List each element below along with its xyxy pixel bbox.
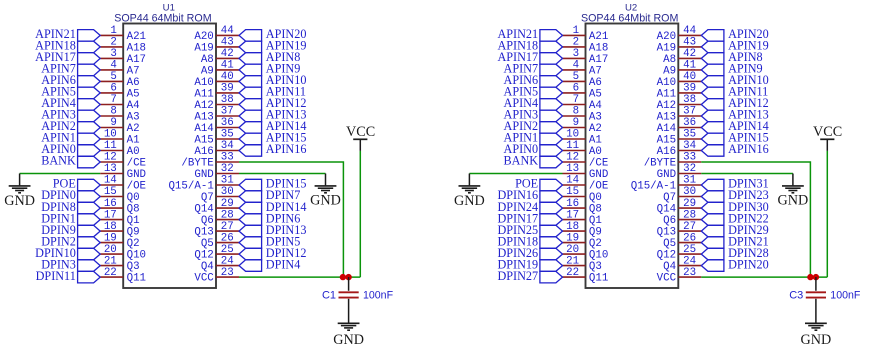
svg-text:Q10: Q10 — [589, 250, 608, 262]
svg-text:A21: A21 — [127, 31, 146, 43]
svg-text:BANK: BANK — [504, 154, 539, 168]
label C3 reference — [789, 290, 803, 302]
U1 pin 33 (/BYTE) to wire — [181, 152, 239, 170]
svg-text:VCC: VCC — [346, 124, 375, 140]
svg-text:4: 4 — [573, 60, 579, 72]
U2 pin 40 (A10) net label APIN10 — [657, 71, 769, 89]
svg-text:GND: GND — [4, 193, 35, 209]
svg-text:A19: A19 — [194, 42, 213, 54]
svg-text:C3: C3 — [789, 290, 803, 302]
svg-text:23: 23 — [221, 267, 234, 279]
power symbol VCC (U1) — [346, 124, 375, 151]
U1 pin 29 (Q14) net label DPIN14 — [194, 198, 306, 216]
U1 pin 16 (Q8) net label DPIN8 — [41, 198, 139, 216]
svg-text:29: 29 — [221, 198, 234, 210]
svg-text:Q9: Q9 — [589, 227, 602, 239]
U2 pin 12 (/CE) net label BANK — [504, 152, 609, 170]
label C3 value 100nF — [830, 290, 861, 302]
U2 pin 19 (Q2) net label DPIN18 — [497, 232, 601, 250]
U2 pin 41 (A9) net label APIN9 — [663, 60, 763, 78]
svg-text:A10: A10 — [657, 77, 676, 89]
label C1 reference — [322, 290, 336, 302]
svg-text:25: 25 — [221, 244, 234, 256]
svg-text:3: 3 — [573, 48, 579, 60]
U1 pin 34 (A16) net label APIN16 — [194, 140, 306, 158]
svg-text:8: 8 — [110, 106, 116, 118]
svg-text:28: 28 — [683, 209, 696, 221]
U2 pin 13 (GND) to wire — [563, 163, 609, 181]
U2 pin 32 (GND) to wire — [657, 163, 702, 181]
svg-text:33: 33 — [221, 152, 234, 164]
power symbol VCC (U2) — [813, 124, 842, 151]
svg-text:A17: A17 — [127, 54, 146, 66]
U2 pin 38 (A12) net label APIN12 — [657, 94, 769, 112]
svg-text:Q2: Q2 — [589, 238, 602, 250]
U1 pin 21 (Q3) net label DPIN3 — [41, 255, 139, 273]
U2 pin 1 (A21) net label APIN21 — [497, 25, 608, 43]
svg-text:19: 19 — [104, 232, 117, 244]
svg-text:7: 7 — [573, 94, 579, 106]
svg-text:37: 37 — [683, 106, 696, 118]
svg-text:A1: A1 — [589, 134, 602, 146]
svg-text:15: 15 — [104, 186, 117, 198]
svg-text:100nF: 100nF — [830, 290, 861, 302]
svg-text:37: 37 — [221, 106, 234, 118]
svg-text:17: 17 — [104, 209, 117, 221]
U1 pin 2 (A18) net label APIN18 — [35, 37, 146, 55]
svg-text:16: 16 — [566, 198, 579, 210]
svg-text:A2: A2 — [589, 123, 602, 135]
U2 pin 18 (Q9) net label DPIN25 — [497, 221, 601, 239]
svg-text:3: 3 — [110, 48, 116, 60]
svg-text:100nF: 100nF — [363, 290, 394, 302]
svg-text:2: 2 — [110, 37, 116, 49]
svg-text:/BYTE: /BYTE — [181, 157, 213, 169]
svg-text:A18: A18 — [127, 42, 146, 54]
U2 pin 3 (A17) net label APIN17 — [497, 48, 608, 66]
U2 pin 10 (A1) net label APIN1 — [504, 129, 602, 147]
svg-text:A20: A20 — [194, 31, 213, 43]
svg-text:41: 41 — [683, 60, 696, 72]
svg-text:C1: C1 — [322, 290, 336, 302]
svg-text:GND: GND — [801, 332, 832, 348]
svg-text:24: 24 — [683, 255, 696, 267]
U2 pin 43 (A19) net label APIN19 — [657, 37, 769, 55]
U2 pin 34 (A16) net label APIN16 — [657, 140, 769, 158]
svg-text:12: 12 — [566, 152, 579, 164]
svg-text:Q12: Q12 — [657, 250, 676, 262]
U1 pin 35 (A15) net label APIN15 — [194, 129, 306, 147]
svg-text:Q2: Q2 — [127, 238, 140, 250]
U1 pin 3 (A17) net label APIN17 — [35, 48, 146, 66]
U2 pin 21 (Q3) net label DPIN19 — [497, 255, 601, 273]
svg-text:/CE: /CE — [127, 157, 146, 169]
svg-text:Q6: Q6 — [201, 215, 214, 227]
svg-text:Q5: Q5 — [201, 238, 214, 250]
U1 pin 19 (Q2) net label DPIN2 — [41, 232, 139, 250]
U2 pin 30 (Q7) net label DPIN23 — [663, 186, 769, 204]
svg-text:11: 11 — [104, 140, 117, 152]
svg-text:Q14: Q14 — [657, 204, 676, 216]
svg-text:40: 40 — [683, 71, 696, 83]
svg-text:Q11: Q11 — [589, 273, 608, 285]
svg-text:SOP44 64Mbit ROM: SOP44 64Mbit ROM — [114, 12, 212, 24]
U1 pin 18 (Q9) net label DPIN9 — [41, 221, 139, 239]
U1 pin 4 (A7) net label APIN7 — [41, 60, 139, 78]
svg-text:A0: A0 — [589, 146, 602, 158]
ground symbol GND (below C1) — [333, 323, 364, 348]
U2 pin 9 (A2) net label APIN2 — [504, 117, 602, 135]
U1 pin 11 (A0) net label APIN0 — [41, 140, 139, 158]
svg-text:32: 32 — [683, 163, 696, 175]
svg-text:15: 15 — [566, 186, 579, 198]
U1 pin 1 (A21) net label APIN21 — [35, 25, 146, 43]
svg-text:BANK: BANK — [41, 154, 76, 168]
svg-text:10: 10 — [104, 129, 117, 141]
svg-text:40: 40 — [221, 71, 234, 83]
svg-text:GND: GND — [310, 193, 341, 209]
svg-text:DPIN11: DPIN11 — [36, 269, 76, 283]
svg-text:38: 38 — [683, 94, 696, 106]
svg-text:A10: A10 — [194, 77, 213, 89]
U2 pin 22 (Q11) net label DPIN27 — [497, 267, 608, 285]
svg-text:A11: A11 — [657, 88, 676, 100]
svg-text:Q1: Q1 — [589, 215, 602, 227]
U1 pin 23 (VCC) to wire — [194, 267, 239, 285]
svg-text:A8: A8 — [201, 54, 214, 66]
svg-text:13: 13 — [566, 163, 579, 175]
svg-text:18: 18 — [566, 221, 579, 233]
ground symbol GND (below C3) — [801, 323, 832, 348]
label C1 value 100nF — [363, 290, 394, 302]
svg-text:A20: A20 — [657, 31, 676, 43]
svg-text:Q14: Q14 — [194, 204, 213, 216]
svg-text:A6: A6 — [127, 77, 140, 89]
U1 pin 14 (/OE) net label POE — [53, 175, 146, 193]
capacitor C3 100nF — [806, 277, 826, 323]
svg-text:6: 6 — [110, 83, 116, 95]
U1 pin 32 (GND) to wire — [194, 163, 239, 181]
U1 pin 39 (A11) net label APIN11 — [194, 83, 306, 101]
svg-text:Q0: Q0 — [127, 192, 140, 204]
U2 pin 29 (Q14) net label DPIN30 — [657, 198, 769, 216]
svg-text:APIN16: APIN16 — [728, 142, 769, 156]
svg-text:Q12: Q12 — [194, 250, 213, 262]
svg-text:GND: GND — [194, 169, 213, 181]
U1 pin 17 (Q1) net label DPIN1 — [41, 209, 139, 227]
wire U1 pin13 GND to left ground symbol — [20, 174, 101, 186]
U1 pin 44 (A20) net label APIN20 — [194, 25, 306, 43]
svg-text:11: 11 — [566, 140, 579, 152]
svg-text:30: 30 — [221, 186, 234, 198]
svg-text:A18: A18 — [589, 42, 608, 54]
U1 pin 13 (GND) to wire — [100, 163, 146, 181]
svg-text:A16: A16 — [657, 146, 676, 158]
svg-text:31: 31 — [683, 175, 696, 187]
svg-text:12: 12 — [104, 152, 117, 164]
svg-text:Q13: Q13 — [194, 227, 213, 239]
svg-text:A5: A5 — [127, 88, 140, 100]
svg-text:22: 22 — [104, 267, 117, 279]
svg-text:Q15/A-1: Q15/A-1 — [168, 180, 213, 192]
U2 pin 31 (Q15/A-1) net label DPIN31 — [631, 175, 769, 193]
svg-text:VCC: VCC — [813, 124, 842, 140]
svg-text:DPIN27: DPIN27 — [497, 269, 538, 283]
svg-text:A12: A12 — [657, 100, 676, 112]
svg-text:Q9: Q9 — [127, 227, 140, 239]
U2 pin 11 (A0) net label APIN0 — [504, 140, 602, 158]
U1 pin 42 (A8) net label APIN8 — [201, 48, 301, 66]
U2 pin 35 (A15) net label APIN15 — [657, 129, 769, 147]
U2 pin 2 (A18) net label APIN18 — [497, 37, 608, 55]
U2 pin 42 (A8) net label APIN8 — [663, 48, 763, 66]
U2 pin 33 (/BYTE) to wire — [644, 152, 702, 170]
svg-text:A4: A4 — [127, 100, 140, 112]
svg-text:SOP44 64Mbit ROM: SOP44 64Mbit ROM — [581, 12, 679, 24]
svg-text:A1: A1 — [127, 134, 140, 146]
U2 pin 26 (Q5) net label DPIN21 — [663, 232, 769, 250]
svg-text:A13: A13 — [194, 111, 213, 123]
wire U2 pin32 GND to ground symbol — [701, 174, 793, 186]
U2 pin 4 (A7) net label APIN7 — [504, 60, 602, 78]
U2 pin 23 (VCC) to wire — [657, 267, 702, 285]
svg-text:31: 31 — [221, 175, 234, 187]
svg-text:A2: A2 — [127, 123, 140, 135]
U1 pin 12 (/CE) net label BANK — [41, 152, 146, 170]
wire U2 pin23 VCC to VCC rail — [701, 276, 827, 278]
svg-text:13: 13 — [104, 163, 117, 175]
svg-text:A6: A6 — [589, 77, 602, 89]
svg-text:16: 16 — [104, 198, 117, 210]
svg-text:35: 35 — [683, 129, 696, 141]
U1 pin 27 (Q13) net label DPIN13 — [194, 221, 306, 239]
svg-text:34: 34 — [221, 140, 234, 152]
svg-text:41: 41 — [221, 60, 234, 72]
U2 pin 14 (/OE) net label POE — [515, 175, 608, 193]
U1 pin 7 (A4) net label APIN4 — [41, 94, 139, 112]
ground symbol GND (right of U2) — [778, 186, 809, 209]
svg-text:1: 1 — [110, 25, 116, 37]
svg-text:Q8: Q8 — [127, 204, 140, 216]
svg-text:38: 38 — [221, 94, 234, 106]
wire U1 pin33 /BYTE to VCC rail — [239, 162, 343, 277]
svg-text:23: 23 — [683, 267, 696, 279]
svg-text:9: 9 — [110, 117, 116, 129]
svg-text:6: 6 — [573, 83, 579, 95]
svg-text:A0: A0 — [127, 146, 140, 158]
svg-text:GND: GND — [333, 332, 364, 348]
U1 pin 26 (Q5) net label DPIN5 — [201, 232, 301, 250]
svg-text:35: 35 — [221, 129, 234, 141]
wire VCC rail vertical (U1) — [359, 151, 361, 277]
svg-text:VCC: VCC — [657, 273, 677, 285]
U2 pin 27 (Q13) net label DPIN29 — [657, 221, 769, 239]
svg-text:Q10: Q10 — [127, 250, 146, 262]
svg-text:10: 10 — [566, 129, 579, 141]
svg-text:30: 30 — [683, 186, 696, 198]
junction dot C1-VCC (U1) — [345, 274, 351, 280]
svg-text:4: 4 — [110, 60, 116, 72]
svg-text:28: 28 — [221, 209, 234, 221]
U2 pin 6 (A5) net label APIN5 — [504, 83, 602, 101]
capacitor C1 100nF — [339, 277, 359, 323]
svg-text:/OE: /OE — [589, 180, 608, 192]
svg-text:7: 7 — [110, 94, 116, 106]
U2 pin 20 (Q10) net label DPIN26 — [497, 244, 608, 262]
svg-text:Q4: Q4 — [663, 261, 676, 273]
svg-text:Q5: Q5 — [663, 238, 676, 250]
wire U1 pin32 GND to ground symbol — [239, 174, 326, 186]
svg-text:36: 36 — [221, 117, 234, 129]
svg-text:A4: A4 — [589, 100, 602, 112]
svg-text:26: 26 — [221, 232, 234, 244]
svg-text:5: 5 — [110, 71, 116, 83]
svg-text:A9: A9 — [663, 65, 676, 77]
svg-text:21: 21 — [104, 255, 117, 267]
svg-text:20: 20 — [104, 244, 117, 256]
svg-text:5: 5 — [573, 71, 579, 83]
U1 pin 6 (A5) net label APIN5 — [41, 83, 139, 101]
svg-text:GND: GND — [657, 169, 676, 181]
svg-text:/BYTE: /BYTE — [644, 157, 676, 169]
U1 pin 37 (A13) net label APIN13 — [194, 106, 306, 124]
svg-text:DPIN20: DPIN20 — [728, 257, 769, 271]
svg-text:43: 43 — [683, 37, 696, 49]
svg-text:Q15/A-1: Q15/A-1 — [631, 180, 676, 192]
U2 pin 39 (A11) net label APIN11 — [657, 83, 769, 101]
svg-text:A12: A12 — [194, 100, 213, 112]
IC U2 SOP44 64Mbit ROM body — [581, 2, 679, 288]
svg-text:A19: A19 — [657, 42, 676, 54]
svg-text:Q0: Q0 — [589, 192, 602, 204]
svg-text:A3: A3 — [127, 111, 140, 123]
svg-text:A15: A15 — [657, 134, 676, 146]
U1 pin 30 (Q7) net label DPIN7 — [201, 186, 301, 204]
svg-text:43: 43 — [221, 37, 234, 49]
svg-text:A15: A15 — [194, 134, 213, 146]
svg-text:44: 44 — [683, 25, 696, 37]
U2 pin 5 (A6) net label APIN6 — [504, 71, 602, 89]
svg-text:22: 22 — [566, 267, 579, 279]
wire U2 pin13 GND to left ground symbol — [469, 174, 562, 186]
svg-text:20: 20 — [566, 244, 579, 256]
svg-text:Q3: Q3 — [127, 261, 140, 273]
svg-text:39: 39 — [683, 83, 696, 95]
svg-text:A14: A14 — [657, 123, 676, 135]
U1 pin 28 (Q6) net label DPIN6 — [201, 209, 301, 227]
svg-text:Q8: Q8 — [589, 204, 602, 216]
svg-text:A5: A5 — [589, 88, 602, 100]
svg-text:A3: A3 — [589, 111, 602, 123]
U1 pin 15 (Q0) net label DPIN0 — [41, 186, 139, 204]
svg-text:A14: A14 — [194, 123, 213, 135]
svg-text:39: 39 — [221, 83, 234, 95]
U2 pin 44 (A20) net label APIN20 — [657, 25, 769, 43]
svg-text:17: 17 — [566, 209, 579, 221]
svg-text:24: 24 — [221, 255, 234, 267]
ground symbol GND (left of U1) — [4, 186, 35, 209]
U1 pin 43 (A19) net label APIN19 — [194, 37, 306, 55]
svg-text:GND: GND — [454, 193, 485, 209]
junction dot /BYTE-VCC (U2) — [807, 274, 813, 280]
svg-text:34: 34 — [683, 140, 696, 152]
svg-text:A8: A8 — [663, 54, 676, 66]
svg-text:A16: A16 — [194, 146, 213, 158]
U2 pin 25 (Q12) net label DPIN28 — [657, 244, 769, 262]
wire U1 pin23 VCC to VCC rail — [239, 276, 360, 278]
svg-text:27: 27 — [683, 221, 696, 233]
svg-text:14: 14 — [566, 175, 579, 187]
ground symbol GND (left of U2) — [454, 186, 485, 209]
U1 pin 5 (A6) net label APIN6 — [41, 71, 139, 89]
U1 pin 31 (Q15/A-1) net label DPIN15 — [168, 175, 306, 193]
svg-text:36: 36 — [683, 117, 696, 129]
U1 pin 24 (Q4) net label DPIN4 — [201, 255, 301, 273]
junction dot C3-VCC (U2) — [813, 274, 819, 280]
svg-text:APIN16: APIN16 — [266, 142, 307, 156]
svg-text:33: 33 — [683, 152, 696, 164]
svg-text:/CE: /CE — [589, 157, 608, 169]
svg-text:26: 26 — [683, 232, 696, 244]
svg-text:A11: A11 — [194, 88, 213, 100]
U2 pin 36 (A14) net label APIN14 — [657, 117, 769, 135]
svg-text:A7: A7 — [127, 65, 140, 77]
svg-text:A21: A21 — [589, 31, 608, 43]
U2 pin 17 (Q1) net label DPIN17 — [497, 209, 601, 227]
U1 pin 20 (Q10) net label DPIN10 — [35, 244, 146, 262]
svg-text:29: 29 — [683, 198, 696, 210]
svg-text:19: 19 — [566, 232, 579, 244]
U1 pin 40 (A10) net label APIN10 — [194, 71, 306, 89]
svg-text:VCC: VCC — [194, 273, 214, 285]
U1 pin 41 (A9) net label APIN9 — [201, 60, 301, 78]
svg-text:Q3: Q3 — [589, 261, 602, 273]
svg-text:42: 42 — [221, 48, 234, 60]
svg-text:Q1: Q1 — [127, 215, 140, 227]
U2 pin 8 (A3) net label APIN3 — [504, 106, 602, 124]
U2 pin 24 (Q4) net label DPIN20 — [663, 255, 769, 273]
U2 pin 7 (A4) net label APIN4 — [504, 94, 602, 112]
svg-text:GND: GND — [778, 193, 809, 209]
svg-text:9: 9 — [573, 117, 579, 129]
U1 pin 10 (A1) net label APIN1 — [41, 129, 139, 147]
svg-text:Q4: Q4 — [201, 261, 214, 273]
svg-text:18: 18 — [104, 221, 117, 233]
svg-text:42: 42 — [683, 48, 696, 60]
svg-text:Q7: Q7 — [663, 192, 676, 204]
svg-text:14: 14 — [104, 175, 117, 187]
svg-text:/OE: /OE — [127, 180, 146, 192]
svg-text:21: 21 — [566, 255, 579, 267]
U2 pin 37 (A13) net label APIN13 — [657, 106, 769, 124]
wire VCC rail vertical (U2) — [826, 151, 828, 277]
U2 pin 16 (Q8) net label DPIN24 — [497, 198, 601, 216]
svg-text:2: 2 — [573, 37, 579, 49]
svg-text:1: 1 — [573, 25, 579, 37]
junction dot /BYTE-VCC (U1) — [340, 274, 346, 280]
U2 pin 28 (Q6) net label DPIN22 — [663, 209, 769, 227]
svg-text:25: 25 — [683, 244, 696, 256]
svg-text:Q13: Q13 — [657, 227, 676, 239]
U2 pin 15 (Q0) net label DPIN16 — [497, 186, 601, 204]
wire U2 pin33 /BYTE to VCC rail — [701, 162, 810, 277]
svg-text:GND: GND — [589, 169, 608, 181]
svg-text:Q7: Q7 — [201, 192, 214, 204]
U1 pin 22 (Q11) net label DPIN11 — [36, 267, 146, 285]
svg-text:A17: A17 — [589, 54, 608, 66]
U1 pin 8 (A3) net label APIN3 — [41, 106, 139, 124]
svg-text:Q6: Q6 — [663, 215, 676, 227]
